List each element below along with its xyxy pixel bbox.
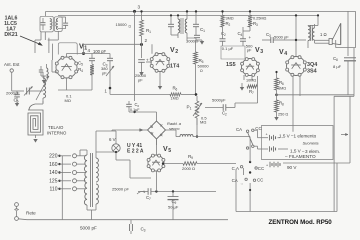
svg-text:7: 7 <box>149 197 151 201</box>
svg-text:pF: pF <box>102 71 107 76</box>
potentiometer P1 0.5Mohm <box>187 96 208 125</box>
wire T2 links <box>171 35 196 38</box>
wire rete <box>17 206 63 219</box>
1S5 label <box>226 62 236 68</box>
capacitor 100pF <box>67 49 111 57</box>
resistor R2 3Mohm <box>221 11 234 27</box>
svg-text:INTERNO: INTERNO <box>47 131 67 136</box>
ground C6 <box>15 97 18 106</box>
resistor R6 1Mohm horizontal <box>110 86 197 101</box>
svg-text:6: 6 <box>176 88 178 92</box>
svg-text:1MΩ: 1MΩ <box>278 87 286 91</box>
node R6-R8 <box>275 90 278 100</box>
svg-text:1S5: 1S5 <box>226 62 236 68</box>
IF coil T1b coil <box>56 19 58 30</box>
svg-text:1 elemento: 1 elemento <box>294 133 317 138</box>
svg-text:3: 3 <box>138 5 141 10</box>
filter choke <box>157 130 251 145</box>
IF coil T1b shield box <box>54 17 62 32</box>
osc coil T1 primary coil <box>50 19 52 30</box>
wire V4 top <box>280 14 306 56</box>
svg-text:CA: CA <box>232 178 238 183</box>
svg-text:2: 2 <box>224 33 226 37</box>
svg-text:E 2 2 A: E 2 2 A <box>127 149 144 155</box>
capacitor C2 5000pF coupling <box>205 98 235 117</box>
V3 label <box>255 47 263 55</box>
svg-text:ZENTRON Mod. RP50: ZENTRON Mod. RP50 <box>269 219 333 226</box>
svg-text:2: 2 <box>175 49 178 55</box>
svg-text:8 µF: 8 µF <box>333 64 342 69</box>
svg-text:TELAIO: TELAIO <box>48 125 64 130</box>
svg-text:10MΩ: 10MΩ <box>246 79 256 83</box>
output transformer secondary <box>313 24 315 43</box>
node 4 dot <box>82 48 91 55</box>
svg-text:6 V: 6 V <box>109 137 116 142</box>
svg-text:8: 8 <box>282 103 284 107</box>
svg-text:50 µF: 50 µF <box>168 205 179 210</box>
battery 1.5V row1 <box>254 130 348 145</box>
trimmer capacitor 2000pF <box>6 87 43 96</box>
svg-text:3: 3 <box>256 23 258 27</box>
node 3 dot <box>133 5 141 13</box>
IF T2 left capacitor <box>168 15 174 35</box>
resistor R6 1Mohm <box>275 72 287 91</box>
output transformer primary <box>308 15 318 48</box>
3Q4 3S4 label <box>307 62 317 75</box>
svg-text:1,5 V: 1,5 V <box>290 149 302 154</box>
battery 1.5V row2 <box>254 146 320 159</box>
antenna terminal <box>10 69 13 72</box>
wire V2 bottom <box>146 62 162 89</box>
wire antenna down <box>12 72 24 91</box>
svg-text:250 Ω: 250 Ω <box>278 113 288 117</box>
tube type list 1AL6/1LC5/1A7/DK21 <box>4 16 18 39</box>
svg-text:160: 160 <box>49 162 58 168</box>
V5 label <box>163 146 171 154</box>
capacitor C6 <box>14 91 20 104</box>
svg-text:1MΩ: 1MΩ <box>171 97 179 101</box>
svg-text:CC: CC <box>257 178 263 183</box>
wire transformer bottom <box>87 205 96 220</box>
svg-text:+: + <box>266 133 268 137</box>
resistor R9 2000ohm <box>164 154 236 171</box>
tube V5 <box>147 154 165 172</box>
switch CA CC row1 <box>236 126 262 132</box>
arrow to V1 <box>20 36 42 45</box>
svg-text:3S4: 3S4 <box>307 69 317 75</box>
wire pot region <box>196 118 198 138</box>
svg-text:pF: pF <box>138 78 143 83</box>
capacitor C7 25000pF <box>135 58 149 83</box>
resistor 0.1 Mohm label <box>65 94 73 104</box>
wire battery columns <box>236 137 251 212</box>
svg-text:4: 4 <box>241 33 243 37</box>
svg-text:1: 1 <box>149 30 151 34</box>
svg-text:110: 110 <box>50 187 58 193</box>
wire right rails top <box>336 11 356 56</box>
V4 label <box>279 49 287 57</box>
svg-text:5000 pF: 5000 pF <box>274 35 289 40</box>
transformer primary <box>84 150 87 205</box>
wire V4 pins down <box>293 76 300 132</box>
capacitor C7 25000pF <box>112 187 216 202</box>
transformer core <box>91 153 93 207</box>
svg-text:DK21: DK21 <box>4 32 17 38</box>
svg-text:3MΩ: 3MΩ <box>226 17 234 21</box>
wire V1 bottom <box>52 60 92 90</box>
resistor R8 250ohm <box>275 100 289 120</box>
resistor R4 <box>78 65 94 81</box>
osc coil T1 capacitor <box>41 18 46 30</box>
wire loop to circuit <box>29 101 43 110</box>
IF T2 primary coil <box>178 15 180 38</box>
svg-text:2000 Ω: 2000 Ω <box>182 166 195 171</box>
capacitor C3 5000pF <box>262 32 289 43</box>
svg-text:Suoneria: Suoneria <box>303 140 320 145</box>
resistor R1 15000 <box>116 11 152 44</box>
svg-text:CC: CC <box>258 166 264 171</box>
svg-text:+: + <box>266 164 268 168</box>
row4 CA CC <box>232 178 264 185</box>
UY41 EZ2A label <box>127 143 144 155</box>
tube V2 <box>150 53 170 73</box>
svg-text:1: 1 <box>203 29 205 33</box>
title ZENTRON Mod. RP50 <box>269 219 333 226</box>
row3 90V <box>232 96 350 173</box>
svg-text:1: 1 <box>105 89 108 94</box>
loop antenna TELAIO INTERNO <box>28 110 67 142</box>
resistor R7 10Mohm <box>240 75 257 95</box>
svg-text:Ω: Ω <box>200 69 203 73</box>
svg-text:220: 220 <box>49 154 58 160</box>
IF T2 secondary coil <box>185 11 187 40</box>
wire bottom rail2 <box>236 163 337 212</box>
svg-text:4: 4 <box>284 51 287 57</box>
grid box <box>221 46 245 59</box>
svg-text:5: 5 <box>168 148 171 154</box>
svg-text:CA: CA <box>236 127 242 132</box>
wire to right rail <box>277 94 355 96</box>
wire V1 grid staple <box>58 43 77 55</box>
svg-text:Ant. Est: Ant. Est <box>4 62 20 67</box>
output transformer core <box>311 25 313 41</box>
capacitor C9 50uF <box>168 192 179 220</box>
wire V5 top <box>155 139 157 155</box>
svg-text:3 elem.: 3 elem. <box>305 149 320 154</box>
Radd. a secco label <box>167 121 182 131</box>
capacitor C5 <box>78 54 95 67</box>
wire top rail <box>46 11 356 16</box>
svg-text:4: 4 <box>88 48 91 53</box>
V2 label <box>170 47 178 55</box>
svg-text:Rete: Rete <box>26 211 36 216</box>
capacitor C1 3000pF <box>186 27 205 44</box>
V1 label <box>79 44 87 52</box>
wire V1 plate up <box>84 44 142 53</box>
svg-text:4: 4 <box>81 69 83 73</box>
Rete terminals <box>15 203 37 221</box>
IF coil T1b capacitor <box>58 17 68 29</box>
svg-text:1 Ω: 1 Ω <box>320 32 327 37</box>
wire V3 to box <box>235 76 258 103</box>
svg-text:5000 pF: 5000 pF <box>80 226 97 231</box>
svg-text:9: 9 <box>191 156 193 160</box>
mains taps <box>49 154 58 193</box>
svg-text:25000 pF: 25000 pF <box>112 187 129 192</box>
capacitor C3 5000pF mains <box>80 220 146 234</box>
svg-text:pF: pF <box>247 48 252 53</box>
svg-text:– FILAMENTO: – FILAMENTO <box>285 154 316 159</box>
wire bridge top <box>133 111 156 121</box>
capacitor C2 0.1uF AVC <box>126 101 140 112</box>
svg-text:7: 7 <box>252 91 254 95</box>
wire V5 bottom <box>116 160 156 192</box>
svg-text:2: 2 <box>225 113 227 117</box>
svg-text:MΩ: MΩ <box>65 98 71 103</box>
capacitor C2 0.1uF <box>220 27 234 51</box>
svg-text:6: 6 <box>282 82 284 86</box>
tube V4 <box>286 56 307 77</box>
node 2 dot <box>140 38 148 46</box>
svg-text:,,: ,, <box>241 180 243 185</box>
tube V3 <box>241 58 260 77</box>
tuning coil L1 <box>36 72 49 103</box>
battery box <box>262 126 334 160</box>
svg-text:15000: 15000 <box>116 22 128 27</box>
wire bridge left <box>112 129 148 132</box>
svg-text:1: 1 <box>190 107 192 111</box>
wire node2 <box>135 36 142 101</box>
svg-text:3: 3 <box>144 229 146 233</box>
svg-text:125: 125 <box>49 179 58 185</box>
1T4 label <box>170 64 179 70</box>
svg-text:8: 8 <box>336 58 338 62</box>
6V lamp <box>109 131 120 160</box>
IF T2 right capacitor <box>171 11 199 33</box>
resistor R5 50000 <box>194 40 210 96</box>
wire transformer to lamp <box>80 131 116 156</box>
svg-text:C.A: C.A <box>232 166 239 171</box>
1 ohm label <box>320 32 327 37</box>
svg-text:0.1µF: 0.1µF <box>130 108 140 112</box>
transformer secondary HT <box>96 158 98 182</box>
transformer secondary fil <box>96 152 98 210</box>
trimmer arrow right <box>105 64 115 94</box>
rail junction dots <box>115 10 319 165</box>
svg-text:2: 2 <box>145 38 148 43</box>
capacitor C3 380pF <box>101 54 113 76</box>
svg-text:3Q4: 3Q4 <box>307 62 317 68</box>
svg-text:1,5 V: 1,5 V <box>279 133 291 138</box>
wire T1 down legs <box>35 31 58 60</box>
svg-text:MΩ: MΩ <box>200 120 206 125</box>
svg-text:3000pF: 3000pF <box>186 39 200 44</box>
capacitor C4 500pF <box>238 27 254 53</box>
svg-text:5000pF: 5000pF <box>212 98 226 103</box>
tube V1 <box>55 56 77 78</box>
svg-text:2: 2 <box>229 23 231 27</box>
svg-text:+: + <box>249 35 252 40</box>
switch lever <box>246 132 254 149</box>
osc coil T1 shield box <box>40 16 53 32</box>
tap terminals <box>58 154 85 191</box>
resistor R3 0.25Mohm <box>248 11 266 27</box>
speaker <box>315 23 341 44</box>
svg-text:1T4: 1T4 <box>170 64 179 70</box>
svg-text:3: 3 <box>260 49 263 55</box>
wire bottom rail <box>62 219 228 221</box>
svg-text:Ω: Ω <box>129 24 132 28</box>
svg-text:0.25MΩ: 0.25MΩ <box>253 17 267 21</box>
capacitor V1 cathode <box>39 64 48 83</box>
svg-text:0.1 µF: 0.1 µF <box>222 46 234 51</box>
svg-text:90 V: 90 V <box>287 165 297 170</box>
bridge rectifier diamond <box>148 121 166 139</box>
wire V2 top <box>151 44 153 54</box>
svg-text:50000: 50000 <box>198 64 210 69</box>
IF T2 core <box>181 18 183 34</box>
wire second rail <box>58 14 318 16</box>
Ant. Est label <box>4 62 20 67</box>
svg-text:140: 140 <box>49 170 58 176</box>
svg-text:5: 5 <box>81 63 83 67</box>
wire right rail mid <box>334 48 354 212</box>
tap bus <box>61 156 63 220</box>
capacitor C8 8uF <box>333 56 356 95</box>
